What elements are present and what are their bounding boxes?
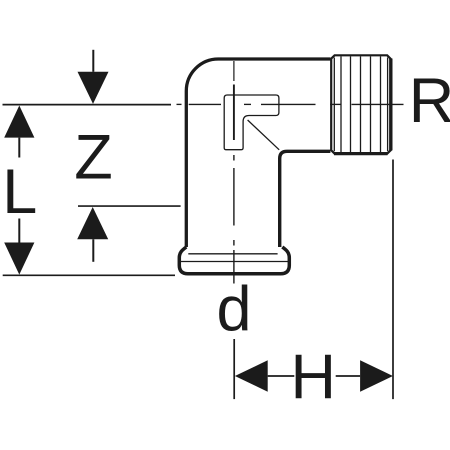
elbow inner corner / bottom edge of branch <box>280 151 331 247</box>
thread crest lines <box>334 56 387 152</box>
dimension H arrow right <box>336 360 393 391</box>
H extension line left <box>233 339 235 399</box>
dimension Z arrow down (top) <box>78 50 109 104</box>
svg-text:Z: Z <box>74 123 112 193</box>
bead inner line 1 <box>188 253 277 255</box>
dimension H arrow left <box>235 360 294 391</box>
extension line top (axis level) <box>3 104 172 106</box>
vertical centerline (dash-dot) <box>233 61 235 284</box>
elbow body outline <box>186 59 330 247</box>
male thread block outline <box>331 55 391 153</box>
thread bottom edge thick <box>334 152 388 155</box>
extension line Z bottom <box>78 205 181 207</box>
dimension Z arrow up (bottom) <box>77 207 108 262</box>
thread right edge thick <box>389 59 392 151</box>
svg-text:L: L <box>2 157 37 227</box>
svg-text:d: d <box>216 275 251 345</box>
horizontal centerline (dash-dot) <box>177 103 404 105</box>
bead inner line 2 <box>180 261 289 263</box>
svg-text:H: H <box>290 342 336 412</box>
internal bore outline <box>224 95 279 150</box>
dimension L arrow down <box>4 219 34 275</box>
H extension line right <box>392 160 394 400</box>
extension line bottom (fitting end level) <box>3 274 175 276</box>
diagonal line to inner corner <box>248 120 280 150</box>
svg-text:R: R <box>409 66 450 136</box>
press socket bead <box>179 247 289 274</box>
dimension L arrow up <box>4 106 34 158</box>
